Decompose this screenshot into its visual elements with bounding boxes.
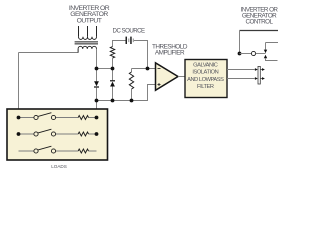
battery B1 (dc source)	[126, 37, 134, 44]
svg-text:ISOLATION: ISOLATION	[192, 70, 218, 76]
svg-text:GALVANIC: GALVANIC	[193, 62, 218, 68]
wire: dc source left lead	[113, 41, 126, 47]
switch S1	[34, 115, 38, 119]
relay contact circle	[251, 51, 255, 55]
switch S3	[34, 149, 38, 153]
transformer T1 secondary winding	[78, 46, 96, 52]
transformer T1 primary winding	[79, 26, 97, 39]
connector J2 down arrow	[264, 50, 267, 54]
wire: U1 output to filter box	[178, 76, 185, 78]
wire: dc source right lead down to inverting input	[134, 41, 148, 69]
label: inverter or generator output	[69, 5, 110, 25]
loads row 2 wire	[19, 133, 97, 135]
wire: inverting input line	[132, 68, 156, 70]
op-amp U1 threshold amplifier	[156, 63, 179, 91]
diode D1 (cathode down)	[94, 81, 99, 87]
galvanic isolation and lowpass filter box	[185, 60, 227, 98]
diode D2 (anode up)	[110, 80, 115, 86]
transformer T1 core	[75, 42, 98, 44]
wire: bottom rail to non-inverting input	[97, 85, 156, 101]
svg-text:AND LOWPASS: AND LOWPASS	[187, 77, 224, 83]
resistor RL3	[78, 149, 88, 153]
terminal dot	[238, 52, 242, 56]
switch S2	[34, 132, 38, 136]
wire: node B down to diode D2	[112, 69, 114, 81]
resistor RL1	[78, 116, 88, 120]
wire: J2 upper stub	[266, 43, 279, 50]
svg-text:DC SOURCE: DC SOURCE	[113, 27, 146, 34]
wire: left horizontal from transformer secondary	[19, 52, 79, 54]
wire: secondary right lead down to node A	[96, 49, 98, 69]
resistor R2 (threshold divider)	[129, 72, 133, 89]
loads row 1 wire	[19, 117, 97, 119]
loads row 3 wire	[19, 150, 97, 152]
resistor R1 (dc source series)	[110, 47, 114, 59]
wire: control left drop	[239, 31, 241, 54]
connector J1 body	[258, 66, 260, 84]
wire: R2 top lead	[131, 69, 133, 73]
svg-text:OUTPUT: OUTPUT	[77, 17, 102, 24]
loads box	[7, 109, 108, 160]
wire: rail down into loads box right bus	[96, 101, 98, 152]
svg-text:AMPLIFIER: AMPLIFIER	[155, 50, 185, 57]
wire: node A down to diode D1	[96, 69, 98, 82]
wire: node A horizontal to diode pair node	[97, 68, 113, 70]
connector J2 up arrow	[264, 55, 267, 59]
svg-text:CONTROL: CONTROL	[246, 19, 274, 26]
wire: left vertical bus down into loads box	[18, 53, 20, 152]
loads bus junction dots	[17, 116, 99, 136]
wire: filter output 1	[227, 69, 255, 71]
svg-text:FILTER: FILTER	[197, 84, 214, 90]
wire: control top rail	[240, 30, 279, 32]
wire: R2 bottom lead	[131, 89, 133, 101]
U1 non-inverting pin mark	[158, 83, 161, 86]
wire: D1 to ground rail	[96, 88, 98, 101]
wire: J2 lower stub	[266, 58, 278, 60]
wire: filter output 2	[227, 78, 255, 80]
wire: D2 to ground rail	[112, 87, 114, 101]
svg-text:LOADS: LOADS	[51, 164, 67, 169]
wire: to relay contact	[240, 53, 252, 55]
junction dots	[95, 67, 150, 103]
resistor RL2	[78, 132, 88, 136]
wire: R1 bottom to node B	[112, 58, 114, 68]
connector J1 pin 1 arrows	[255, 68, 258, 71]
label: threshold amplifier	[152, 43, 188, 56]
connector J1 pin 2 arrows	[255, 77, 258, 80]
wire: contact to connector J2	[256, 53, 266, 55]
U1 inverting pin mark	[158, 68, 161, 70]
label: inverter or generator control	[241, 6, 279, 25]
